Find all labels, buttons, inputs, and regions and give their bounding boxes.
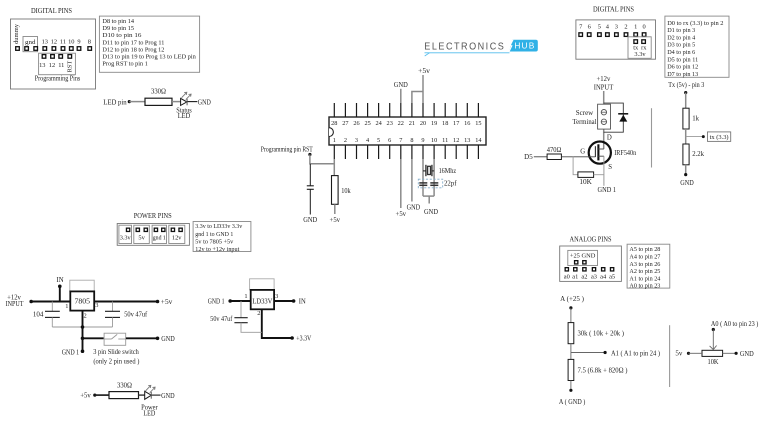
svg-text:+5v: +5v bbox=[396, 211, 407, 218]
svg-text:Programming Pins: Programming Pins bbox=[35, 75, 81, 82]
svg-text:6: 6 bbox=[388, 137, 391, 144]
svg-text:D6 to pin 12: D6 to pin 12 bbox=[667, 64, 698, 71]
svg-text:30k ( 10k + 20k ): 30k ( 10k + 20k ) bbox=[578, 331, 625, 338]
svg-text:a4: a4 bbox=[600, 273, 607, 280]
svg-text:D3 to pin 5: D3 to pin 5 bbox=[667, 42, 696, 49]
section divider line (divider/pot) bbox=[669, 325, 671, 387]
regulator 7805 tab bbox=[70, 280, 94, 291]
svg-text:+5v: +5v bbox=[418, 68, 431, 75]
analog pin labels a0..a5 bbox=[564, 273, 615, 280]
svg-text:G: G bbox=[580, 148, 585, 155]
svg-text:12: 12 bbox=[51, 38, 57, 45]
svg-text:11: 11 bbox=[60, 38, 66, 45]
svg-text:GND: GND bbox=[680, 180, 694, 187]
svg-text:23: 23 bbox=[387, 120, 393, 127]
svg-text:Prog RST to pin 1: Prog RST to pin 1 bbox=[102, 61, 147, 68]
logo HUB blue block with lightning notch bbox=[509, 40, 538, 52]
node +3.3V bbox=[290, 336, 311, 343]
svg-text:5v: 5v bbox=[675, 351, 683, 358]
svg-text:(only 2 pin used ): (only 2 pin used ) bbox=[93, 358, 139, 365]
resistor 10K (gate pulldown) bbox=[578, 172, 594, 186]
svg-text:5: 5 bbox=[377, 137, 380, 144]
label +12v INPUT (mosfet section) bbox=[594, 76, 614, 91]
svg-text:GND: GND bbox=[424, 209, 438, 216]
resistor 1k bbox=[683, 108, 700, 129]
svg-text:6: 6 bbox=[588, 23, 591, 30]
node GND 1 (7805) bbox=[62, 349, 85, 356]
svg-text:10K: 10K bbox=[708, 359, 719, 366]
right header pin number labels 7..0 bbox=[579, 23, 646, 30]
programming pin labels 13 12 11 bbox=[39, 62, 64, 69]
tx rx squares bbox=[634, 40, 645, 44]
svg-text:3: 3 bbox=[355, 137, 358, 144]
gnd box left header bbox=[23, 37, 38, 52]
svg-text:LD33V: LD33V bbox=[252, 299, 272, 306]
IC top pin numbers 28..15 bbox=[331, 120, 481, 127]
section divider line (mosfet/tx) bbox=[651, 108, 653, 167]
svg-text:1: 1 bbox=[333, 137, 336, 144]
wire pin9 down (crystal) bbox=[422, 159, 424, 196]
programming pins box bbox=[39, 53, 76, 74]
note text D8..Prog RST list bbox=[102, 18, 196, 68]
svg-text:GND: GND bbox=[161, 393, 175, 400]
svg-text:gnd: gnd bbox=[25, 39, 36, 46]
svg-text:3 pin Slide switch: 3 pin Slide switch bbox=[93, 349, 139, 356]
svg-text:D7 to pin 13: D7 to pin 13 bbox=[667, 71, 699, 78]
wire 1k to 2.2k with tap bbox=[685, 129, 687, 144]
analog pins note text bbox=[629, 246, 661, 290]
svg-text:IN: IN bbox=[57, 277, 64, 284]
resistor 330ohm (power LED) bbox=[109, 382, 139, 398]
resistor 10k (rst pullup) bbox=[332, 176, 352, 205]
power pins note text bbox=[195, 223, 243, 253]
svg-text:A0 ( A0 to pin 23 ): A0 ( A0 to pin 23 ) bbox=[711, 321, 759, 328]
svg-text:21: 21 bbox=[409, 120, 415, 127]
tx rx 3.3v sub box bbox=[628, 37, 651, 59]
svg-text:3.3v to LD33v 3.3v: 3.3v to LD33v 3.3v bbox=[195, 223, 243, 230]
left header pin number labels 13 12 11 10 9 8 bbox=[42, 38, 91, 45]
wire 7805 pin3 to +5v bbox=[94, 301, 157, 303]
diode loop wire bbox=[604, 103, 624, 132]
label Screw Terminal bbox=[573, 110, 597, 126]
svg-text:LED: LED bbox=[143, 410, 155, 417]
wire resistor to status LED bbox=[172, 101, 181, 103]
regulator LD33V body bbox=[251, 290, 274, 309]
wire 10K to source bbox=[594, 174, 604, 176]
IC bottom pin numbers 1..14 bbox=[333, 137, 483, 144]
svg-text:330Ω: 330Ω bbox=[151, 89, 166, 96]
svg-text:16Mhz: 16Mhz bbox=[439, 168, 457, 175]
svg-text:RST: RST bbox=[67, 61, 74, 73]
power pins header box bbox=[117, 224, 189, 246]
svg-text:13: 13 bbox=[42, 38, 48, 45]
svg-text:24: 24 bbox=[375, 120, 382, 127]
svg-text:3: 3 bbox=[95, 302, 98, 309]
svg-text:D12 to pin 18 to Prog 12: D12 to pin 18 to Prog 12 bbox=[102, 46, 164, 53]
svg-text:5v: 5v bbox=[138, 235, 145, 242]
svg-text:A1 ( A1 to pin 24 ): A1 ( A1 to pin 24 ) bbox=[611, 350, 660, 357]
svg-text:GND 1: GND 1 bbox=[208, 299, 225, 306]
wire 2.2k to GND node bbox=[684, 165, 687, 176]
svg-text:INPUT: INPUT bbox=[6, 301, 25, 308]
screw terminal screws bbox=[601, 110, 606, 125]
svg-text:a5: a5 bbox=[609, 273, 615, 280]
slide switch box bbox=[104, 333, 126, 345]
svg-text:D13 to pin 19 to Prog 13 to LE: D13 to pin 19 to Prog 13 to LED pin bbox=[102, 54, 196, 61]
resistor 30k bbox=[568, 323, 624, 344]
label Power LED bbox=[141, 404, 158, 417]
wire RST node down and right to pin1 bbox=[310, 155, 334, 164]
svg-text:IRF540n: IRF540n bbox=[614, 150, 637, 157]
svg-text:D5 to pin 11: D5 to pin 11 bbox=[667, 56, 698, 63]
wire status LED to GND bbox=[187, 101, 197, 103]
svg-text:GND: GND bbox=[407, 205, 421, 212]
svg-text:D0 to rx (3.3) to pin 2: D0 to rx (3.3) to pin 2 bbox=[667, 20, 723, 27]
label Status LED bbox=[176, 107, 192, 120]
wire pin22 to GND bbox=[400, 89, 402, 103]
diode flyback (cathode bar + triangle) bbox=[618, 114, 628, 122]
svg-text:Terminal: Terminal bbox=[573, 119, 597, 126]
left digital pin mapping note box bbox=[99, 16, 199, 72]
svg-text:13: 13 bbox=[464, 137, 470, 144]
IC bottom pin stubs bbox=[334, 145, 478, 159]
wire switch to GND bbox=[126, 337, 158, 339]
svg-text:50v 47uf: 50v 47uf bbox=[124, 312, 148, 319]
svg-text:12: 12 bbox=[453, 137, 459, 144]
svg-text:DIGITAL PINS: DIGITAL PINS bbox=[593, 6, 634, 14]
label IN tap bbox=[57, 277, 64, 288]
svg-text:104: 104 bbox=[33, 312, 44, 319]
svg-text:1: 1 bbox=[65, 303, 68, 310]
svg-text:9: 9 bbox=[421, 137, 424, 144]
node +12v input dot bbox=[29, 300, 33, 304]
svg-text:Programming pin RST: Programming pin RST bbox=[261, 146, 314, 153]
junction dot switch branch bbox=[81, 337, 85, 341]
potentiometer 10K body bbox=[702, 350, 723, 356]
svg-text:7.5 (6.8k + 820Ω ): 7.5 (6.8k + 820Ω ) bbox=[578, 367, 628, 374]
capacitor RST branch bbox=[307, 164, 314, 215]
svg-text:2: 2 bbox=[257, 310, 260, 317]
svg-text:GND 1: GND 1 bbox=[598, 187, 617, 194]
svg-text:D8 to pin 14: D8 to pin 14 bbox=[102, 18, 134, 25]
left header pin squares row bbox=[16, 47, 92, 51]
IC U1 28-pin DIP body bbox=[329, 117, 486, 145]
IC top pin stubs bbox=[334, 103, 478, 117]
wire 7805 pin2 down bbox=[82, 311, 84, 352]
LED power (diode symbol with arrows) bbox=[145, 385, 155, 399]
svg-text:IN: IN bbox=[299, 299, 306, 306]
svg-text:LED pin: LED pin bbox=[103, 99, 127, 106]
svg-text:0: 0 bbox=[642, 23, 645, 30]
svg-text:7: 7 bbox=[579, 23, 583, 30]
wire A+25 to 30k bbox=[570, 308, 572, 323]
svg-text:14: 14 bbox=[475, 137, 482, 144]
pot wiper wire with arrow bbox=[710, 330, 717, 350]
right digital pin mapping note box bbox=[665, 16, 729, 77]
wire pot right to GND bbox=[723, 352, 738, 355]
svg-text:3.3v: 3.3v bbox=[120, 235, 132, 242]
left digital pins header box bbox=[11, 19, 96, 89]
svg-text:17: 17 bbox=[453, 120, 459, 127]
svg-text:19: 19 bbox=[431, 120, 437, 127]
power sub box 3.3v bbox=[119, 225, 132, 243]
svg-text:12v: 12v bbox=[172, 235, 182, 242]
svg-text:12v to +12v input: 12v to +12v input bbox=[195, 246, 239, 253]
svg-text:A3 to pin 26: A3 to pin 26 bbox=[629, 261, 661, 268]
resistor 2.2k bbox=[683, 144, 705, 165]
logo underline with tick bbox=[425, 53, 510, 56]
svg-text:D10 to pin 16: D10 to pin 16 bbox=[102, 32, 142, 39]
svg-text:9: 9 bbox=[77, 38, 80, 45]
svg-text:13: 13 bbox=[39, 62, 45, 69]
wire 7.5 to A GND bbox=[569, 381, 572, 392]
wire tap to A1 node bbox=[571, 351, 607, 354]
label 3 pin Slide switch bbox=[93, 349, 139, 366]
junction dot rail bbox=[81, 325, 85, 329]
resistor 7.5 bbox=[559, 321, 759, 406]
svg-text:A4 to pin 27: A4 to pin 27 bbox=[629, 254, 661, 261]
svg-text:LED: LED bbox=[178, 113, 191, 120]
programming pin squares bbox=[42, 55, 71, 59]
svg-text:a3: a3 bbox=[591, 273, 597, 280]
wire pin1 down through junction bbox=[333, 159, 335, 176]
power sub box gnd 1 bbox=[152, 225, 166, 243]
svg-text:28: 28 bbox=[331, 120, 337, 127]
power sub box 5v bbox=[134, 225, 150, 243]
wire source to GND 1 bbox=[603, 156, 605, 186]
svg-text:DIGITAL PINS: DIGITAL PINS bbox=[31, 7, 72, 15]
svg-text:A2 to pin 25: A2 to pin 25 bbox=[629, 268, 661, 275]
svg-text:HUB: HUB bbox=[514, 42, 535, 51]
svg-text:Tx (5v) - pin 3: Tx (5v) - pin 3 bbox=[668, 82, 705, 89]
regulator LD33V tab bbox=[250, 279, 275, 290]
capacitor 22pf right bbox=[430, 183, 438, 185]
svg-text:3.3v: 3.3v bbox=[634, 51, 646, 58]
svg-text:10: 10 bbox=[68, 38, 74, 45]
svg-text:10k: 10k bbox=[341, 188, 351, 195]
capacitor 50v 47uf (input side) branch bbox=[105, 302, 120, 328]
wire to slide switch bbox=[83, 337, 104, 339]
svg-text:22: 22 bbox=[398, 120, 404, 127]
label +12v INPUT (7805) bbox=[6, 294, 25, 308]
svg-text:2: 2 bbox=[344, 137, 347, 144]
svg-text:A5 to pin 28: A5 to pin 28 bbox=[629, 246, 661, 253]
svg-text:a1: a1 bbox=[572, 273, 578, 280]
wire power LED to GND bbox=[151, 394, 160, 396]
svg-text:A1 to pin 24: A1 to pin 24 bbox=[629, 275, 661, 282]
wire Tx node to 1k resistor bbox=[685, 93, 687, 109]
svg-text:10: 10 bbox=[431, 137, 437, 144]
mosfet internal bars and leads bbox=[595, 144, 604, 160]
svg-text:2.2k: 2.2k bbox=[692, 151, 704, 158]
svg-text:GND: GND bbox=[740, 351, 754, 358]
svg-text:11: 11 bbox=[442, 137, 448, 144]
svg-text:27: 27 bbox=[342, 120, 348, 127]
wire LD33V pin2 to +3.3V bbox=[262, 309, 292, 338]
wire 10k to +5v bbox=[334, 204, 336, 214]
node Programming pin RST bbox=[261, 146, 314, 156]
wire 470 to gate bbox=[561, 156, 595, 158]
svg-text:gnd 1 to GND 1: gnd 1 to GND 1 bbox=[195, 231, 233, 238]
right digital pins header box bbox=[576, 20, 656, 59]
wire +12v to 7805 pin1 bbox=[31, 301, 70, 303]
svg-text:470Ω: 470Ω bbox=[547, 147, 562, 154]
svg-text:ELECTRONICS: ELECTRONICS bbox=[424, 42, 505, 53]
wire tap to tx(3.3) node bbox=[686, 135, 705, 138]
svg-text:8: 8 bbox=[88, 38, 91, 45]
svg-text:A (+25 ): A (+25 ) bbox=[560, 296, 584, 303]
mosfet IRF540n circle bbox=[589, 142, 611, 164]
node A0 dot bbox=[712, 328, 715, 331]
svg-text:2: 2 bbox=[83, 312, 86, 319]
svg-text:GND: GND bbox=[394, 82, 408, 89]
wire pin10 down (crystal) bbox=[433, 159, 435, 196]
svg-text:18: 18 bbox=[442, 120, 448, 127]
capacitor 50v 47uf (ld33v) branch bbox=[234, 301, 261, 332]
node GND (switch) bbox=[156, 336, 175, 343]
svg-text:3: 3 bbox=[615, 23, 618, 30]
analog pins header box bbox=[560, 246, 622, 281]
svg-text:16: 16 bbox=[464, 120, 470, 127]
svg-text:INPUT: INPUT bbox=[594, 85, 614, 92]
IC notch bbox=[329, 128, 333, 137]
svg-text:GND: GND bbox=[303, 217, 317, 224]
svg-text:ANALOG PINS: ANALOG PINS bbox=[570, 236, 612, 244]
svg-text:+5v: +5v bbox=[330, 217, 341, 224]
svg-text:5v to 7805 +5v: 5v to 7805 +5v bbox=[195, 238, 234, 245]
wire resistor to power LED bbox=[139, 394, 145, 396]
svg-text:1: 1 bbox=[634, 23, 637, 30]
svg-text:gnd 1: gnd 1 bbox=[153, 235, 166, 242]
svg-text:7805: 7805 bbox=[75, 299, 91, 306]
node +5v output bbox=[156, 299, 173, 306]
screw terminal box bbox=[598, 104, 611, 129]
svg-text:GND 1: GND 1 bbox=[62, 350, 80, 357]
analog pins note box bbox=[627, 244, 670, 288]
selection dashed box around 22pf caps bbox=[418, 179, 442, 188]
svg-text:+5v: +5v bbox=[161, 299, 173, 306]
analog +25 GND sub box bbox=[568, 250, 598, 265]
svg-text:Screw: Screw bbox=[576, 110, 594, 117]
node box tx (3.3) bbox=[708, 132, 731, 142]
svg-text:50v 47uf: 50v 47uf bbox=[210, 316, 233, 323]
svg-text:25: 25 bbox=[364, 120, 370, 127]
svg-text:12: 12 bbox=[49, 62, 55, 69]
svg-text:1k: 1k bbox=[692, 116, 699, 123]
svg-text:POWER PINS: POWER PINS bbox=[134, 212, 172, 220]
regulator 7805 body bbox=[70, 291, 94, 310]
svg-text:7: 7 bbox=[399, 137, 402, 144]
wire GND1 to LD33V pin1 bbox=[230, 300, 251, 302]
svg-text:D1 to pin 3: D1 to pin 3 bbox=[667, 27, 696, 34]
svg-text:D4 to pin 6: D4 to pin 6 bbox=[667, 49, 696, 56]
svg-text:11: 11 bbox=[58, 62, 64, 69]
svg-text:GND: GND bbox=[161, 336, 175, 343]
svg-text:tx (3.3): tx (3.3) bbox=[710, 134, 729, 141]
node LED pin bbox=[103, 99, 131, 106]
svg-text:20: 20 bbox=[420, 120, 426, 127]
wire IN tap bbox=[59, 286, 61, 301]
svg-text:15: 15 bbox=[475, 120, 481, 127]
svg-text:A0 to pin 23: A0 to pin 23 bbox=[629, 283, 661, 290]
node Tx (5v) - pin 3 bbox=[668, 82, 705, 94]
LED status (diode symbol with arrows) bbox=[181, 92, 192, 105]
svg-text:a0: a0 bbox=[564, 273, 570, 280]
wire pin8 to GND bbox=[411, 159, 413, 202]
analog pin squares row bbox=[565, 268, 614, 271]
capacitor 22pf left bbox=[419, 183, 427, 185]
node IN (ld33v) bbox=[292, 299, 306, 306]
wire LD33V pin3 to IN bbox=[274, 300, 294, 302]
right header pin squares row bbox=[579, 33, 646, 37]
svg-text:a2: a2 bbox=[581, 273, 587, 280]
svg-text:1: 1 bbox=[244, 293, 247, 300]
labels tx rx bbox=[633, 45, 647, 52]
svg-text:D: D bbox=[607, 134, 612, 141]
wire pin20 to +5v bbox=[422, 75, 424, 103]
wire 30k to 7.5 with tap bbox=[570, 344, 572, 360]
svg-text:S: S bbox=[608, 164, 612, 171]
node A (+25) bbox=[560, 296, 584, 310]
wire pin7 to +5v bbox=[400, 159, 402, 208]
svg-text:+12v: +12v bbox=[597, 76, 611, 83]
wire gate node down to 10K bbox=[573, 157, 578, 175]
svg-text:+3.3V: +3.3V bbox=[296, 336, 311, 343]
wire pin21 to +5v bracket bbox=[412, 92, 423, 104]
svg-text:4: 4 bbox=[606, 23, 610, 30]
power pins note box bbox=[193, 222, 251, 252]
wire pot left to 5v bbox=[687, 352, 702, 355]
crystal 16Mhz bbox=[423, 165, 434, 176]
wire LED pin to resistor bbox=[129, 101, 145, 103]
power sub box 12v bbox=[169, 225, 185, 243]
svg-text:D9 to pin 15: D9 to pin 15 bbox=[102, 25, 134, 32]
ground rail under 7805 bbox=[52, 326, 112, 328]
svg-text:2: 2 bbox=[624, 23, 627, 30]
svg-text:GND: GND bbox=[198, 99, 211, 106]
svg-text:3: 3 bbox=[275, 293, 278, 300]
note text D0..D7 list bbox=[667, 20, 723, 78]
capacitor 104 branch bbox=[45, 302, 60, 328]
wire D5 to 470 resistor bbox=[534, 156, 547, 158]
svg-text:22pf: 22pf bbox=[444, 180, 457, 187]
svg-text:D11 to pin 17 to Prog 11: D11 to pin 17 to Prog 11 bbox=[102, 39, 164, 46]
svg-text:8: 8 bbox=[410, 137, 413, 144]
node +5v (power led) bbox=[80, 393, 96, 400]
svg-text:+5v: +5v bbox=[80, 393, 91, 400]
svg-text:26: 26 bbox=[353, 120, 359, 127]
node GND 1 (ld33v) bbox=[208, 299, 232, 306]
svg-text:dummy: dummy bbox=[13, 23, 20, 44]
svg-text:5: 5 bbox=[598, 23, 601, 30]
svg-text:330Ω: 330Ω bbox=[117, 382, 132, 389]
svg-text:D5: D5 bbox=[524, 154, 533, 161]
wire +12v input down to drain bbox=[603, 91, 605, 149]
resistor 330ohm (status LED) bbox=[145, 89, 172, 106]
crystal caps join wire to GND bbox=[423, 196, 434, 203]
svg-text:10K: 10K bbox=[579, 179, 592, 186]
svg-text:A ( GND ): A ( GND ) bbox=[559, 399, 586, 406]
resistor 470ohm bbox=[547, 147, 562, 159]
svg-text:D2 to pin 4: D2 to pin 4 bbox=[667, 34, 696, 41]
svg-text:+25 GND: +25 GND bbox=[570, 253, 596, 260]
wire +5v to 330 resistor bbox=[95, 394, 109, 396]
